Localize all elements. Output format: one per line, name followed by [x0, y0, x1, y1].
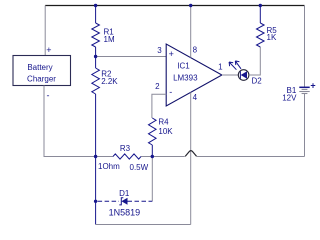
- junction dot D1 left: [94, 200, 97, 203]
- junction dot top rail pin8: [189, 4, 192, 7]
- junction dot R1/R2 pin3 tap: [94, 55, 97, 58]
- top power rail: [45, 5, 304, 7]
- junction dot mid net left: [94, 155, 97, 158]
- svg-text:-: -: [47, 91, 50, 101]
- wire R4 bottom lead: [151, 145, 153, 157]
- wire charger minus down and right: [44, 86, 96, 157]
- svg-text:IC1: IC1: [177, 62, 190, 71]
- svg-text:0.5W: 0.5W: [130, 163, 149, 172]
- wire D1 node down to bottom rail: [95, 201, 97, 224]
- svg-text:3: 3: [157, 46, 162, 55]
- svg-text:+: +: [310, 81, 315, 91]
- wire pin 8 to top rail: [190, 6, 192, 58]
- svg-text:Battery: Battery: [27, 63, 52, 72]
- right rail lower: [304, 94, 306, 157]
- svg-text:R4: R4: [158, 118, 169, 127]
- svg-text:1: 1: [218, 63, 223, 72]
- resistor R3: [98, 144, 149, 172]
- op-amp IC1 LM393: [166, 44, 222, 106]
- wire R5 top lead: [259, 6, 261, 24]
- wire output pin1 to LED: [222, 74, 238, 76]
- svg-text:1K: 1K: [267, 33, 277, 42]
- svg-text:+: +: [46, 45, 51, 55]
- svg-text:D1: D1: [119, 189, 130, 198]
- right rail upper: [304, 6, 306, 88]
- svg-text:LM393: LM393: [173, 74, 198, 83]
- battery charger box: [13, 56, 71, 86]
- resistor R2: [92, 68, 119, 94]
- svg-text:R3: R3: [120, 144, 131, 153]
- svg-text:Charger: Charger: [27, 75, 56, 84]
- wire R1 top lead from rail: [95, 6, 97, 24]
- wire R2 bottom to mid net: [95, 94, 97, 157]
- wire pin3 from R1/R2 tap: [96, 56, 167, 58]
- wire left vertical to charger: [44, 6, 46, 56]
- wire LED to R5: [249, 47, 260, 75]
- svg-text:D2: D2: [251, 77, 262, 86]
- bottom ground rail: [96, 224, 191, 226]
- svg-text:+: +: [169, 49, 174, 59]
- resistor R4: [149, 118, 174, 146]
- resistor R5: [257, 23, 278, 47]
- wire mid net horizontal right part: [197, 156, 305, 158]
- svg-text:12V: 12V: [282, 94, 297, 103]
- wire mid net down to D1: [95, 157, 97, 202]
- svg-text:10K: 10K: [158, 127, 173, 136]
- junction dot mid net R4: [151, 155, 154, 158]
- wire mid net hump right of R3: [141, 156, 185, 158]
- diode D1 1N5819: [98, 189, 153, 218]
- junction dot top rail R5: [259, 4, 262, 7]
- battery B1: [282, 81, 315, 103]
- resistor R1: [92, 23, 115, 47]
- svg-text:4: 4: [193, 93, 198, 102]
- wire pin 4 down to bottom rail: [190, 92, 192, 224]
- wire D1 right vertical to junction: [151, 157, 153, 202]
- svg-text:8: 8: [193, 46, 198, 55]
- junction dot top rail R1: [94, 4, 97, 7]
- wire crossing hump: [185, 151, 196, 157]
- svg-text:2: 2: [155, 82, 160, 91]
- wire mid net left lead to R3: [96, 156, 113, 158]
- LED D2: [229, 61, 262, 86]
- svg-text:1Ohm: 1Ohm: [98, 162, 120, 171]
- svg-text:-: -: [169, 87, 172, 97]
- wire between R1 and R2: [95, 47, 97, 68]
- svg-text:2.2K: 2.2K: [101, 77, 118, 86]
- svg-text:1N5819: 1N5819: [109, 208, 141, 218]
- svg-text:1M: 1M: [104, 35, 115, 44]
- wire pin 2 to R4: [152, 94, 166, 118]
